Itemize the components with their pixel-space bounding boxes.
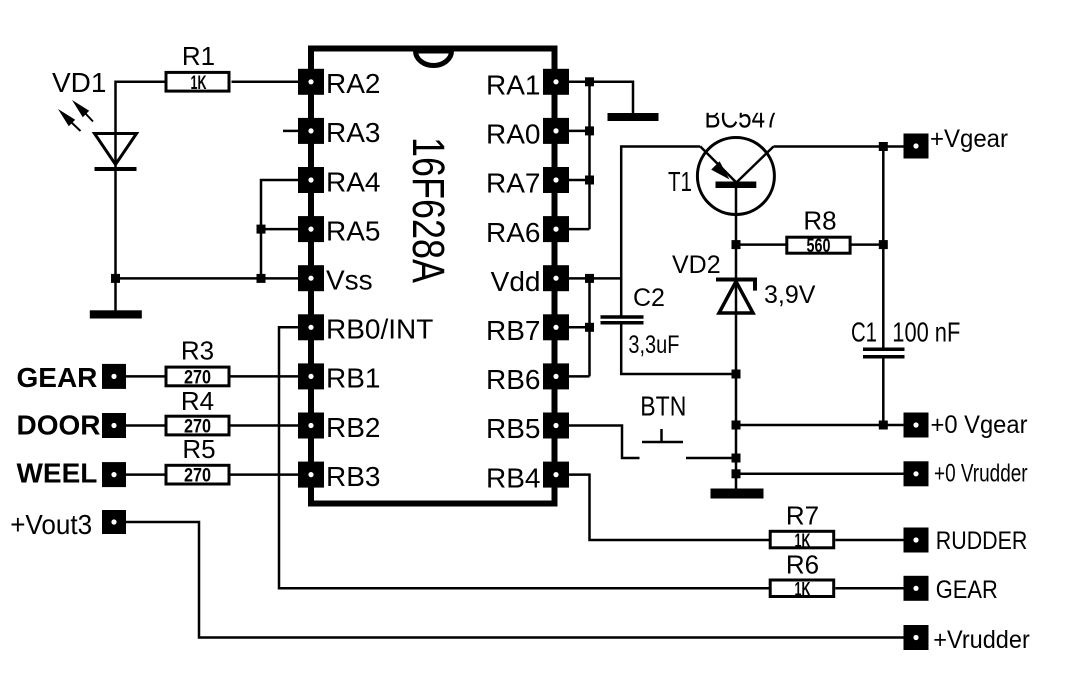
- wire R8 left to trunk: [736, 243, 786, 246]
- svg-text:RB0/INT: RB0/INT: [326, 314, 433, 345]
- pin Vdd (right): [491, 265, 569, 297]
- wire R5 to RB3: [231, 473, 299, 476]
- resistor R8: [787, 206, 850, 258]
- wire RA1..RA6 tie: [588, 82, 591, 229]
- svg-text:Vdd: Vdd: [491, 266, 541, 297]
- wire trunk (T1 emitter down to ground): [735, 188, 738, 489]
- wire +0 Vrudder row: [736, 473, 904, 476]
- svg-text:RB5: RB5: [486, 413, 540, 444]
- svg-text:+Vgear: +Vgear: [930, 125, 1008, 153]
- wire RA6 stub: [569, 228, 590, 231]
- ground (bottom middle): [711, 489, 764, 499]
- wire Vdd stub to C2 line: [569, 277, 621, 280]
- wire RA3 stub: [283, 130, 298, 133]
- wire Vss row: [116, 277, 299, 280]
- resistor R1: [166, 41, 229, 94]
- wire R3 to RB1: [231, 375, 299, 378]
- junction RA5 tie: [257, 225, 266, 234]
- svg-text:100 nF: 100 nF: [892, 317, 960, 348]
- pin RA0 (right): [486, 118, 569, 150]
- wire T1 collector to +Vgear: [774, 145, 905, 148]
- junction LED/Vss: [111, 274, 120, 283]
- wire WEEL to R5: [126, 473, 165, 476]
- svg-text:RA4: RA4: [326, 166, 380, 197]
- junction RB7: [585, 323, 594, 332]
- pin RA7 (right): [486, 167, 569, 199]
- wire base line (Vdd corner up to T1 base): [621, 147, 700, 316]
- svg-text:RB6: RB6: [486, 364, 540, 395]
- svg-text:+Vout3: +Vout3: [10, 509, 92, 540]
- wire Vdd..RB6 tie: [588, 278, 591, 376]
- wire GEAR to R3: [126, 375, 165, 378]
- LED VD1: [52, 67, 137, 169]
- svg-text:RB1: RB1: [326, 363, 380, 394]
- pin RB1 (left): [298, 363, 380, 394]
- svg-text:16F628A: 16F628A: [403, 137, 454, 284]
- junction trunk +0 Vrudder: [732, 469, 741, 478]
- svg-text:1K: 1K: [191, 73, 207, 94]
- terminal WEEL (left): [17, 457, 127, 488]
- terminal +Vrudder: [904, 625, 1030, 654]
- resistor R7: [770, 501, 834, 552]
- junction trunk C2 return: [732, 370, 741, 379]
- svg-text:R6: R6: [786, 550, 819, 580]
- svg-text:RA5: RA5: [326, 215, 380, 246]
- resistor R4: [166, 386, 229, 437]
- wire R1 right to RA2: [232, 81, 299, 84]
- pin RA4 (left): [298, 166, 380, 197]
- junction RA4/RA5 to Vss wire: [257, 274, 266, 283]
- svg-text:BTN: BTN: [640, 391, 686, 422]
- transistor T1 BC547: [668, 138, 774, 215]
- terminal +0 Vrudder: [904, 460, 1028, 488]
- capacitor C1: [851, 317, 960, 357]
- svg-text:3,3uF: 3,3uF: [628, 331, 679, 359]
- svg-text:RB7: RB7: [486, 315, 540, 346]
- wire RA1 to top ground: [569, 82, 633, 113]
- wire DOOR to R4: [126, 424, 165, 427]
- svg-text:VD2: VD2: [672, 251, 721, 279]
- svg-text:R4: R4: [181, 386, 214, 416]
- pin RB6 (right): [486, 363, 569, 395]
- svg-text:+0 Vgear: +0 Vgear: [931, 411, 1028, 439]
- svg-text:RA0: RA0: [486, 119, 540, 150]
- svg-text:+0 Vrudder: +0 Vrudder: [934, 460, 1028, 488]
- ground (top right): [608, 113, 659, 121]
- junction Vdd: [585, 274, 594, 283]
- junction R8 right: [879, 240, 888, 249]
- wire R8 right to C1 line: [852, 243, 884, 246]
- junction RA1: [585, 77, 594, 86]
- terminal GEAR (right): [904, 576, 998, 604]
- wire RB6 stub: [569, 375, 590, 378]
- button BTN: [569, 391, 736, 459]
- svg-text:R8: R8: [803, 206, 836, 236]
- junction RA0: [585, 126, 594, 135]
- wire RA7 stub: [569, 179, 590, 182]
- resistor R5: [166, 434, 229, 486]
- wire R7 to RUDDER terminal: [835, 539, 904, 542]
- svg-text:RA7: RA7: [486, 168, 540, 199]
- junction trunk BTN: [732, 454, 741, 463]
- svg-text:RB2: RB2: [326, 412, 380, 443]
- svg-text:+Vrudder: +Vrudder: [933, 626, 1030, 654]
- wire RB0/INT to R6: [279, 327, 770, 588]
- svg-text:RA3: RA3: [326, 117, 380, 148]
- svg-text:T1: T1: [668, 166, 692, 197]
- svg-text:RA6: RA6: [486, 217, 540, 248]
- svg-text:WEEL: WEEL: [17, 457, 98, 488]
- svg-text:R7: R7: [786, 501, 819, 531]
- terminal DOOR (left): [17, 410, 127, 441]
- wire R1 left to LED node: [116, 82, 165, 134]
- terminal RUDDER: [904, 527, 1028, 555]
- junction C1 bottom: [879, 421, 888, 430]
- wire RB7 stub: [569, 326, 590, 329]
- wire RA4/RA5 tie: [261, 180, 298, 278]
- wire R4 to RB2: [231, 424, 299, 427]
- svg-text:C1: C1: [851, 317, 877, 348]
- junction RA7: [585, 176, 594, 185]
- wire R6 to GEAR terminal: [835, 587, 904, 590]
- svg-text:1K: 1K: [795, 580, 811, 601]
- pin RB4 (right): [486, 462, 569, 494]
- terminal +Vout3 (left): [10, 509, 126, 540]
- svg-text:560: 560: [807, 236, 831, 257]
- wire +0 Vgear row: [736, 424, 904, 427]
- svg-text:RB3: RB3: [326, 461, 380, 492]
- wire +Vout3 to +Vrudder: [126, 522, 904, 638]
- svg-text:VD1: VD1: [52, 67, 106, 98]
- svg-text:GEAR: GEAR: [17, 362, 98, 393]
- svg-text:1K: 1K: [795, 531, 811, 552]
- svg-text:RUDDER: RUDDER: [936, 527, 1028, 555]
- wire RA0 stub: [569, 130, 590, 133]
- pin RB0/INT (left): [298, 314, 433, 345]
- resistor R3: [166, 336, 229, 389]
- junction R8 left: [732, 240, 741, 249]
- pin RA2 (left): [298, 68, 380, 99]
- wire C1 bottom line: [882, 359, 885, 426]
- svg-text:R1: R1: [182, 41, 215, 71]
- wire RA5 stub: [261, 228, 298, 231]
- pin RB3 (left): [298, 461, 380, 492]
- wire LED cathode down to ground: [114, 169, 117, 311]
- svg-text:C2: C2: [633, 284, 665, 312]
- svg-text:R3: R3: [181, 336, 214, 366]
- svg-text:DOOR: DOOR: [17, 410, 101, 441]
- svg-text:3,9V: 3,9V: [764, 281, 816, 309]
- svg-text:270: 270: [184, 465, 211, 486]
- wire C1 top line: [882, 147, 885, 348]
- junction trunk +0 Vgear: [732, 421, 741, 430]
- terminal +0 Vgear: [904, 411, 1028, 439]
- label BC547 (clipped top): [698, 95, 788, 135]
- svg-text:RB4: RB4: [486, 462, 540, 493]
- ground (left, LED): [90, 310, 142, 318]
- svg-text:RA2: RA2: [326, 68, 380, 99]
- pin RA1 (right): [486, 69, 569, 101]
- svg-text:R5: R5: [182, 434, 215, 464]
- IC U1 16F628A body: [311, 49, 555, 504]
- svg-text:RA1: RA1: [486, 70, 540, 101]
- pin RB7 (right): [486, 314, 569, 346]
- junction C1 top line: [879, 142, 888, 151]
- terminal GEAR (left): [17, 362, 127, 393]
- pin RA5 (left): [298, 215, 380, 246]
- wire C2 bottom to trunk: [621, 325, 736, 375]
- capacitor C2: [601, 284, 680, 359]
- svg-text:GEAR: GEAR: [936, 576, 998, 604]
- resistor R6: [770, 550, 834, 601]
- terminal +Vgear: [904, 125, 1009, 159]
- pin RA6 (right): [486, 216, 569, 248]
- svg-text:Vss: Vss: [326, 265, 373, 296]
- pin Vss (left): [298, 265, 373, 296]
- pin RA3 (left): [298, 117, 380, 148]
- zener VD2 3,9V: [672, 251, 816, 313]
- wire RB4 to R7: [569, 475, 770, 540]
- pin RB5 (right): [486, 413, 569, 445]
- pin RB2 (left): [298, 412, 380, 443]
- IC U1 notch: [416, 51, 452, 66]
